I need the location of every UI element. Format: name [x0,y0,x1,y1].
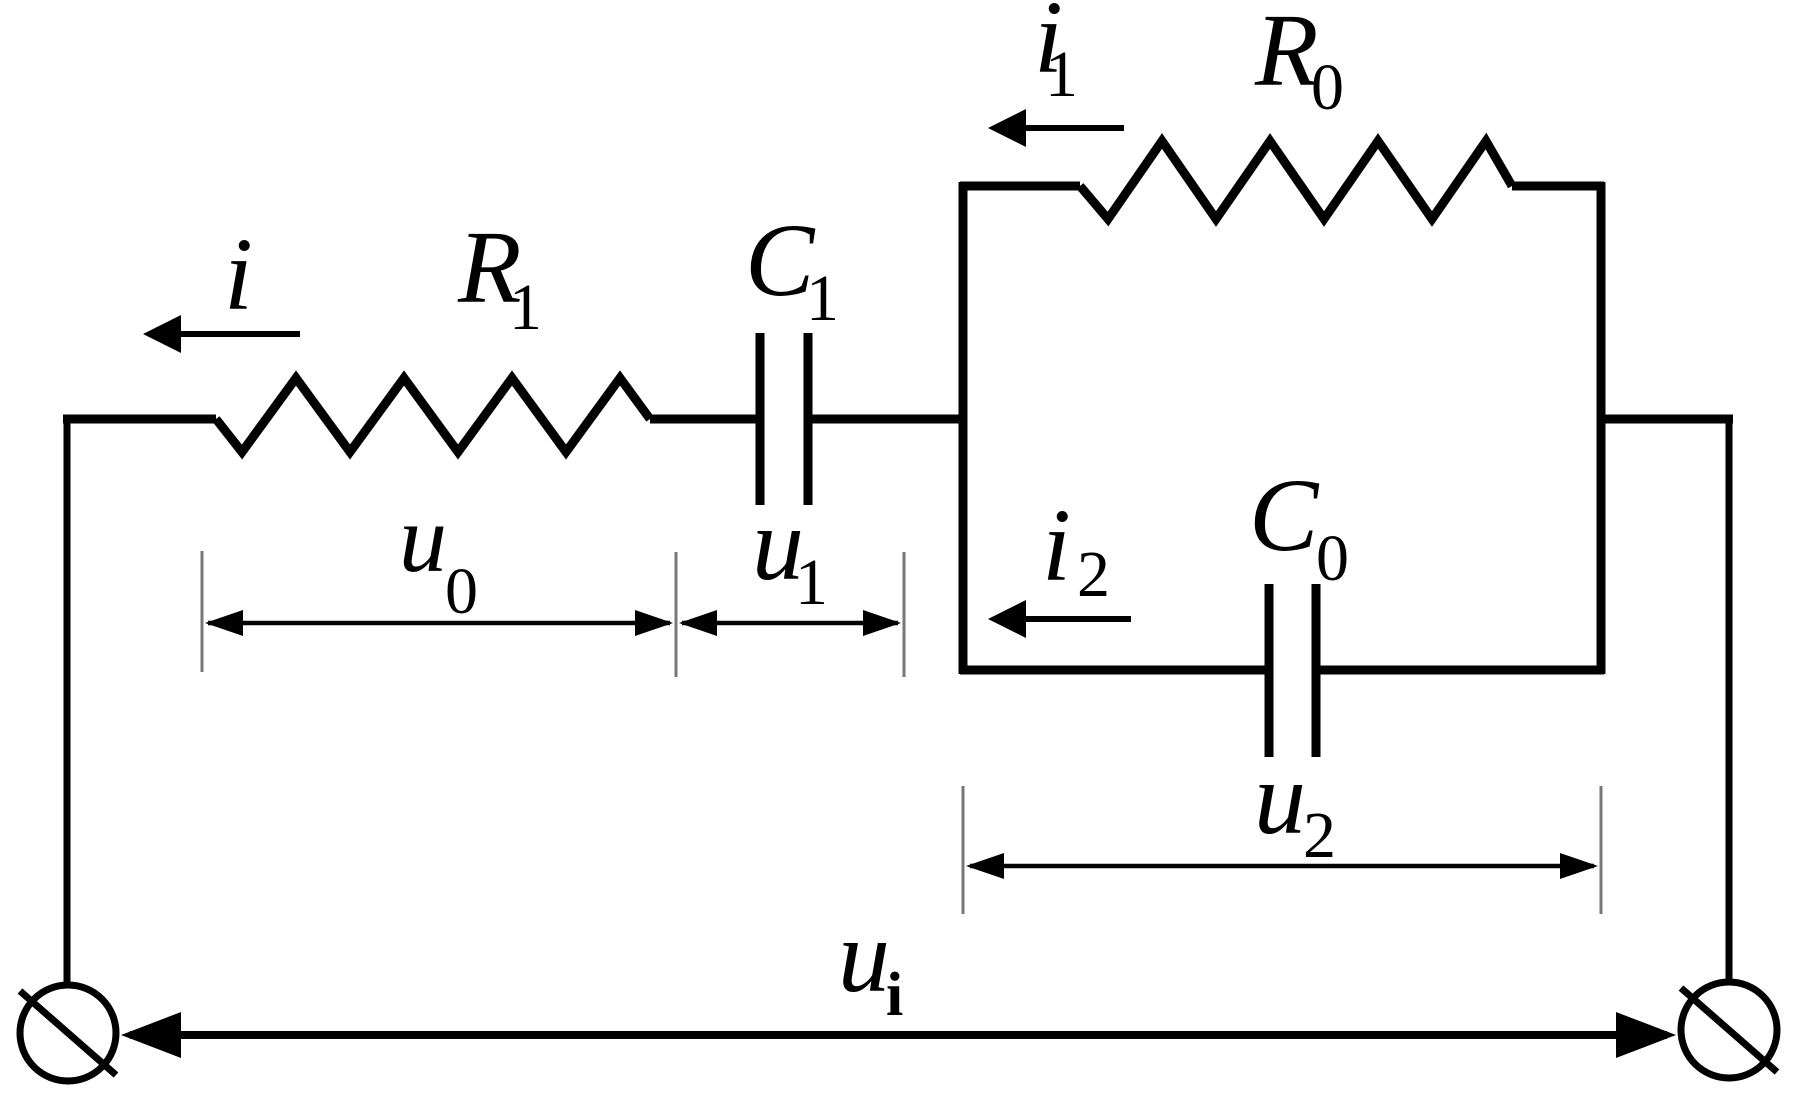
wire: top branch left segment [960,182,1080,191]
svg-text:0: 0 [1311,51,1344,124]
arrowhead u0 right [635,610,673,636]
svg-text:i: i [886,961,903,1029]
arrowhead u1 right [863,610,901,636]
svg-text:u: u [1254,741,1306,856]
terminal (right source) [1681,982,1777,1078]
svg-text:1: 1 [806,262,839,335]
svg-text:1: 1 [795,546,828,619]
arrowhead i [143,315,181,353]
arrowhead i1 [988,109,1026,147]
arrowhead u_i left [121,1012,181,1058]
wire: C1 to node at parallel block [811,415,966,424]
tick u2 left [962,786,965,914]
tick u0/u1 middle [675,552,678,677]
arrowhead u0 left [205,610,243,636]
resistor R0 [1080,141,1512,219]
svg-text:1: 1 [1045,38,1078,111]
wire: left horizontal from left vertical to R1 [63,415,216,424]
arrow: current i1 [1016,125,1124,131]
wire: bottom branch right segment [1320,666,1604,675]
arrowhead u2 left [966,853,1004,879]
svg-text:i: i [224,217,253,332]
capacitor C1 [756,333,765,505]
resistor R1 [216,378,650,452]
svg-text:C: C [1249,458,1320,573]
wire: right vertical down to right terminal [1726,415,1733,981]
wire: left vertical down to left terminal [64,415,71,984]
dimension line u_i (bottom) [130,1031,1667,1039]
dimension line u2 [970,864,1594,869]
wire: parallel block right vertical [1597,182,1606,674]
wire: node to right vertical [1601,415,1733,424]
terminal (left source) [20,985,116,1081]
dimension line u0 [208,621,670,626]
arrow: current i [172,331,300,337]
wire: top branch right segment [1512,182,1604,191]
svg-text:i: i [1042,488,1071,603]
wire: bottom branch left segment [960,666,1265,675]
wire: R1 to C1 [650,415,757,424]
svg-text:u: u [399,485,447,592]
arrow: current i2 [1016,616,1131,622]
svg-text:R: R [1254,0,1319,108]
tick u2 right [1600,786,1603,914]
tick u1 right [903,552,906,677]
arrowhead i2 [988,600,1026,638]
tick u0 left [201,551,204,672]
svg-text:u: u [838,899,890,1014]
svg-text:0: 0 [445,555,478,628]
arrowhead u1 left [679,610,717,636]
svg-text:1: 1 [509,271,542,344]
svg-text:2: 2 [1077,538,1110,611]
svg-text:2: 2 [1303,799,1336,872]
dimension line u1 [682,621,898,626]
arrowhead u2 right [1560,853,1598,879]
svg-text:0: 0 [1316,522,1349,595]
arrowhead u_i right [1616,1012,1676,1058]
capacitor C0 [1265,584,1274,757]
wire: parallel block left vertical [959,182,968,674]
